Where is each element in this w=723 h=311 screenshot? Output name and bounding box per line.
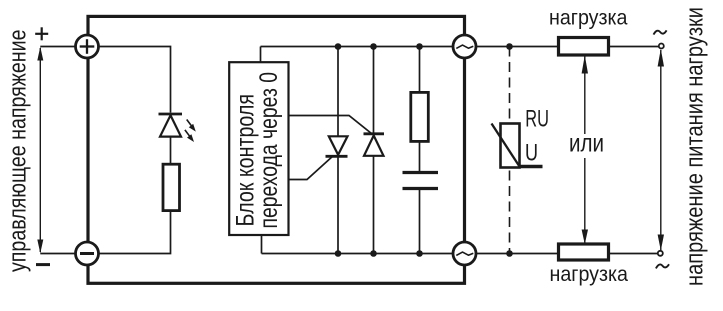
capacitor C1 top plate [403,171,439,174]
arrowhead up (supply) [658,49,664,67]
wire: block top stub [260,47,262,63]
wire: LED branch bottom to - terminal [99,211,171,254]
tilde bottom right [656,264,669,268]
right terminal circle top [659,44,664,49]
wire: thyristor VS2 vertical [373,47,375,254]
junction VS1 bottom [335,250,342,257]
svg-text:или: или [569,129,604,157]
svg-text:нагрузка: нагрузка [550,263,629,286]
wire: gate line to VS1 [289,156,334,180]
wire: gate line to VS2 [289,116,372,134]
wire: bottom output to load [476,253,559,255]
varistor RU body [501,124,520,168]
arrowhead down (or) [582,230,588,245]
wire: control + lead left stub [40,46,76,48]
minus label [36,263,50,266]
arrowhead up (control) [37,47,43,61]
LED D1 lead [170,137,172,164]
load box top [559,38,609,56]
varistor diagonal stroke [492,124,520,167]
load box bottom [559,244,609,260]
plus label [35,27,48,40]
wire: snubber vertical top [419,47,421,93]
wire: power top bus [261,46,454,48]
right terminal circle bottom [658,251,663,256]
wire: bottom load to right terminal [609,253,658,255]
junction VS2 bottom [370,250,377,257]
wire: top output to load [476,46,559,48]
LED emission arrow 1 [187,120,196,132]
terminal circle ~ top [453,35,476,58]
capacitor C1 bottom plate [403,187,439,190]
dimension line (or) lower part [584,158,586,243]
terminal circle ~ bottom [453,242,476,265]
svg-text:U: U [525,140,538,167]
thyristor VS2 triangle (up) [364,136,384,156]
resistor R1 [163,164,180,210]
tilde top right [654,30,667,34]
varistor U bar [518,165,543,168]
arrowhead up (or) [582,55,588,73]
SSR body outline [88,16,465,283]
dashed varistor branch [509,47,511,254]
junction snubber top [416,43,423,50]
tilde inside top terminal [456,45,473,48]
resistor R2 (snubber) [411,92,429,141]
control block box [229,62,288,235]
wire: + terminal to LED branch [99,47,171,113]
tilde inside bottom terminal [456,252,473,255]
wire: C1 to bottom bus [419,189,421,254]
wire: power bottom bus [262,253,454,255]
thyristor VS2 anode bar [364,132,385,135]
wire: R2 to C1 [419,141,421,172]
thyristor VS1 triangle (down) [329,136,348,155]
wire: top load to right terminal [609,46,659,48]
LED D1 triangle [160,115,181,136]
svg-text:нагрузка: нагрузка [549,6,628,29]
terminal circle - [76,242,99,265]
junction dot bottom (varistor branch) [506,250,513,257]
svg-text:перехода через 0: перехода через 0 [255,72,283,229]
wire: block bottom stub [261,235,263,254]
terminal circle + [76,35,99,58]
junction snubber bottom [416,250,423,257]
svg-text:RU: RU [525,106,549,133]
junction dot top (varistor branch) [506,43,513,50]
wire: control - lead left stub [40,253,76,255]
dimension line (or) upper part [584,56,586,134]
thyristor VS1 cathode bar [326,155,348,158]
svg-text:управляющее напряжение: управляющее напряжение [4,30,31,273]
svg-text:напряжение питания нагрузки: напряжение питания нагрузки [682,7,709,286]
dimension line (control voltage) [39,48,41,252]
junction VS2 top [370,43,377,50]
LED emission arrow 2 [185,130,194,142]
plus inside terminal [80,39,95,54]
dimension line (supply) [660,50,662,250]
arrowhead down (control) [37,240,43,254]
LED D1 cathode bar [159,113,183,116]
minus inside terminal [80,252,94,255]
wire: thyristor VS1 vertical [337,47,339,254]
arrowhead down (supply) [658,235,664,251]
junction VS1 top [335,43,342,50]
